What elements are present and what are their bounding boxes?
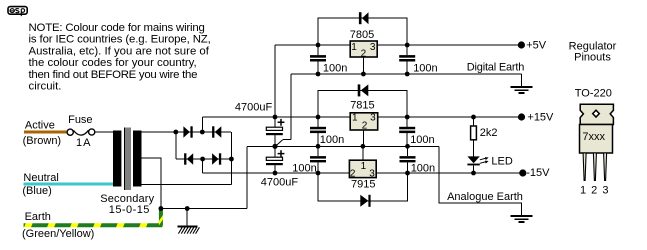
svg-text:Active: Active — [25, 120, 55, 132]
svg-text:3: 3 — [370, 42, 376, 53]
svg-text:2: 2 — [361, 48, 367, 59]
svg-text:7815: 7815 — [350, 100, 374, 112]
svg-text:circuit.: circuit. — [29, 81, 62, 93]
svg-text:2k2: 2k2 — [480, 127, 498, 139]
svg-text:1: 1 — [580, 185, 586, 197]
svg-text:100n: 100n — [292, 163, 316, 175]
svg-text:Australia, etc). If you are n: Australia, etc). If you are not sure of — [29, 45, 210, 57]
svg-text:2: 2 — [591, 185, 597, 197]
svg-text:Analogue Earth: Analogue Earth — [447, 191, 523, 203]
svg-text:3: 3 — [369, 169, 375, 180]
svg-text:7xxx: 7xxx — [582, 131, 605, 143]
svg-text:1A: 1A — [76, 137, 91, 149]
svg-text:(Blue): (Blue) — [22, 185, 51, 197]
svg-text:4700uF: 4700uF — [261, 176, 299, 188]
svg-text:(Brown): (Brown) — [23, 135, 62, 147]
svg-text:NOTE: Colour code for mains wi: NOTE: Colour code for mains wiring — [29, 22, 205, 34]
svg-text:1: 1 — [352, 112, 358, 123]
svg-text:Neutral: Neutral — [23, 172, 58, 184]
svg-text:7805: 7805 — [350, 29, 374, 41]
svg-text:100n: 100n — [320, 134, 344, 146]
svg-text:(Green/Yellow): (Green/Yellow) — [22, 228, 94, 240]
svg-text:100n: 100n — [413, 63, 437, 75]
svg-text:Fuse: Fuse — [68, 114, 92, 126]
svg-text:4700uF: 4700uF — [235, 101, 273, 113]
svg-text:3: 3 — [602, 185, 608, 197]
svg-text:LED: LED — [491, 155, 512, 167]
svg-text:Earth: Earth — [25, 211, 51, 223]
svg-text:2: 2 — [362, 121, 368, 132]
svg-text:100n: 100n — [410, 134, 434, 146]
svg-text:100n: 100n — [323, 63, 347, 75]
svg-text:+15V: +15V — [527, 112, 554, 124]
svg-text:Digital Earth: Digital Earth — [467, 62, 524, 74]
svg-text:is for IEC countries (e.g. Eur: is for IEC countries (e.g. Europe, NZ, — [29, 34, 211, 46]
svg-text:15-0-15: 15-0-15 — [109, 204, 150, 216]
svg-text:3: 3 — [370, 112, 376, 123]
svg-text:-15V: -15V — [526, 167, 550, 179]
svg-text:7915: 7915 — [351, 178, 375, 190]
svg-text:Pinouts: Pinouts — [574, 52, 611, 64]
svg-text:100n: 100n — [411, 163, 435, 175]
svg-text:1: 1 — [351, 42, 357, 53]
svg-text:the colour codes for your coun: the colour codes for your country, — [29, 57, 197, 69]
svg-text:2: 2 — [350, 169, 356, 180]
svg-text:1: 1 — [361, 161, 367, 172]
svg-text:TO-220: TO-220 — [575, 88, 612, 100]
svg-text:Regulator: Regulator — [569, 40, 617, 52]
svg-text:then find out BEFORE you wire: then find out BEFORE you wire the — [29, 69, 198, 81]
svg-text:+5V: +5V — [526, 39, 547, 51]
